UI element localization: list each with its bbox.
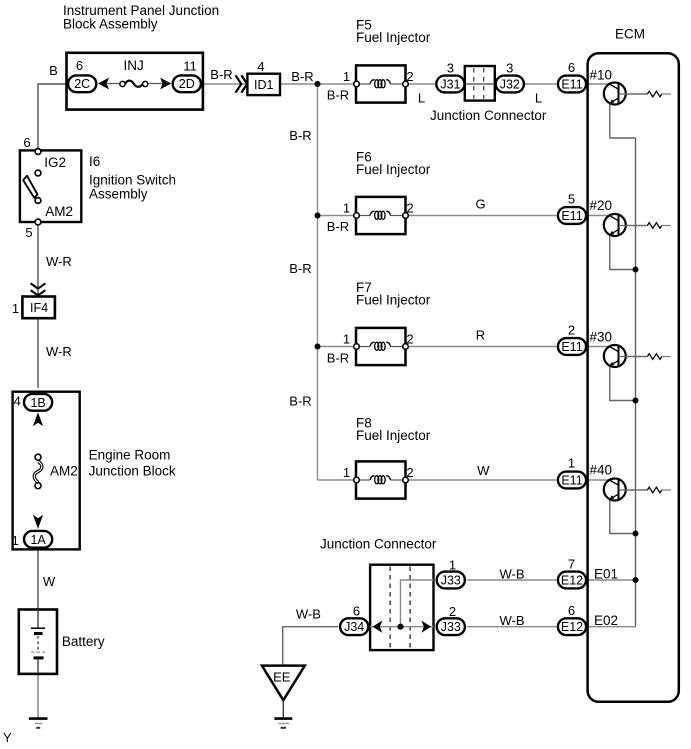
svg-text:Y: Y (3, 730, 12, 745)
svg-text:W-B: W-B (296, 607, 321, 622)
svg-text:#20: #20 (590, 198, 613, 213)
svg-text:E11: E11 (561, 340, 582, 354)
svg-text:J34: J34 (344, 620, 364, 634)
svg-text:2C: 2C (74, 77, 90, 91)
svg-text:Assembly: Assembly (89, 187, 148, 202)
svg-text:6: 6 (353, 604, 360, 619)
svg-text:E01: E01 (594, 567, 618, 582)
svg-text:E12: E12 (561, 574, 583, 588)
svg-text:Fuel Injector: Fuel Injector (356, 428, 431, 443)
svg-text:B-R: B-R (291, 69, 313, 84)
svg-text:6: 6 (76, 58, 83, 73)
svg-text:7: 7 (568, 557, 575, 572)
svg-text:B-R: B-R (289, 394, 311, 409)
svg-text:6: 6 (23, 135, 30, 150)
svg-text:2: 2 (406, 465, 413, 480)
svg-text:E11: E11 (561, 78, 582, 92)
svg-text:B-R: B-R (289, 261, 311, 276)
svg-text:2D: 2D (179, 77, 195, 91)
svg-text:Engine Room: Engine Room (89, 448, 171, 463)
svg-text:G: G (476, 197, 486, 212)
svg-text:2: 2 (406, 69, 413, 84)
svg-text:4: 4 (257, 59, 264, 74)
svg-text:W-B: W-B (499, 567, 524, 582)
svg-text:Fuel Injector: Fuel Injector (356, 293, 431, 308)
svg-text:INJ: INJ (124, 58, 144, 73)
svg-text:AM2: AM2 (50, 463, 78, 478)
svg-text:ECM: ECM (615, 27, 645, 42)
svg-text:W: W (477, 463, 490, 478)
svg-text:1: 1 (12, 533, 19, 548)
svg-text:E12: E12 (561, 620, 583, 634)
svg-text:I6: I6 (89, 154, 100, 169)
svg-text:L: L (418, 91, 425, 106)
svg-text:IF4: IF4 (30, 301, 48, 315)
svg-text:1: 1 (568, 456, 575, 471)
svg-text:E11: E11 (561, 474, 582, 488)
svg-text:1: 1 (449, 558, 456, 573)
svg-text:B-R: B-R (210, 67, 232, 82)
svg-text:B-R: B-R (327, 219, 349, 234)
svg-text:J33: J33 (441, 620, 461, 634)
svg-text:J33: J33 (441, 574, 461, 588)
svg-text:Battery: Battery (62, 634, 105, 649)
svg-text:IG2: IG2 (44, 155, 66, 170)
svg-text:Ignition Switch: Ignition Switch (89, 173, 176, 188)
svg-text:6: 6 (568, 603, 575, 618)
svg-text:Junction Connector: Junction Connector (320, 537, 437, 552)
svg-text:3: 3 (447, 61, 454, 76)
svg-text:J32: J32 (500, 78, 520, 92)
svg-text:B-R: B-R (327, 88, 349, 103)
svg-text:1B: 1B (30, 396, 45, 410)
svg-text:2: 2 (449, 604, 456, 619)
svg-text:2: 2 (568, 323, 575, 338)
svg-text:AM2: AM2 (45, 204, 73, 219)
svg-text:W-R: W-R (46, 254, 72, 269)
svg-text:Junction Block: Junction Block (89, 464, 176, 479)
svg-text:1: 1 (343, 201, 350, 216)
svg-text:2: 2 (406, 201, 413, 216)
svg-text:R: R (476, 328, 485, 343)
svg-text:5: 5 (568, 192, 575, 207)
svg-text:1: 1 (343, 465, 350, 480)
svg-text:B: B (49, 63, 58, 78)
svg-text:#40: #40 (590, 463, 613, 478)
svg-text:5: 5 (25, 225, 32, 240)
svg-text:Junction Connector: Junction Connector (430, 108, 547, 123)
svg-text:Block Assembly: Block Assembly (63, 16, 158, 31)
svg-text:1A: 1A (30, 533, 46, 547)
svg-text:ID1: ID1 (254, 78, 274, 92)
svg-text:6: 6 (568, 60, 575, 75)
svg-text:1: 1 (12, 301, 19, 316)
svg-text:B-R: B-R (327, 351, 349, 366)
svg-text:11: 11 (183, 59, 197, 74)
svg-text:2: 2 (406, 332, 413, 347)
svg-text:Fuel Injector: Fuel Injector (356, 30, 431, 45)
svg-text:#30: #30 (590, 330, 613, 345)
svg-text:EE: EE (273, 670, 291, 685)
svg-text:L: L (535, 91, 542, 106)
svg-text:W-R: W-R (46, 344, 72, 359)
svg-text:1: 1 (343, 69, 350, 84)
svg-text:E11: E11 (561, 209, 582, 223)
svg-text:W-B: W-B (499, 613, 524, 628)
svg-text:E02: E02 (594, 613, 618, 628)
svg-text:Fuel Injector: Fuel Injector (356, 162, 431, 177)
svg-text:1: 1 (343, 332, 350, 347)
svg-text:W: W (43, 574, 56, 589)
svg-text:#10: #10 (590, 68, 613, 83)
svg-text:4: 4 (14, 394, 21, 409)
svg-text:J31: J31 (440, 78, 460, 92)
svg-text:3: 3 (506, 61, 513, 76)
svg-text:B-R: B-R (289, 128, 311, 143)
